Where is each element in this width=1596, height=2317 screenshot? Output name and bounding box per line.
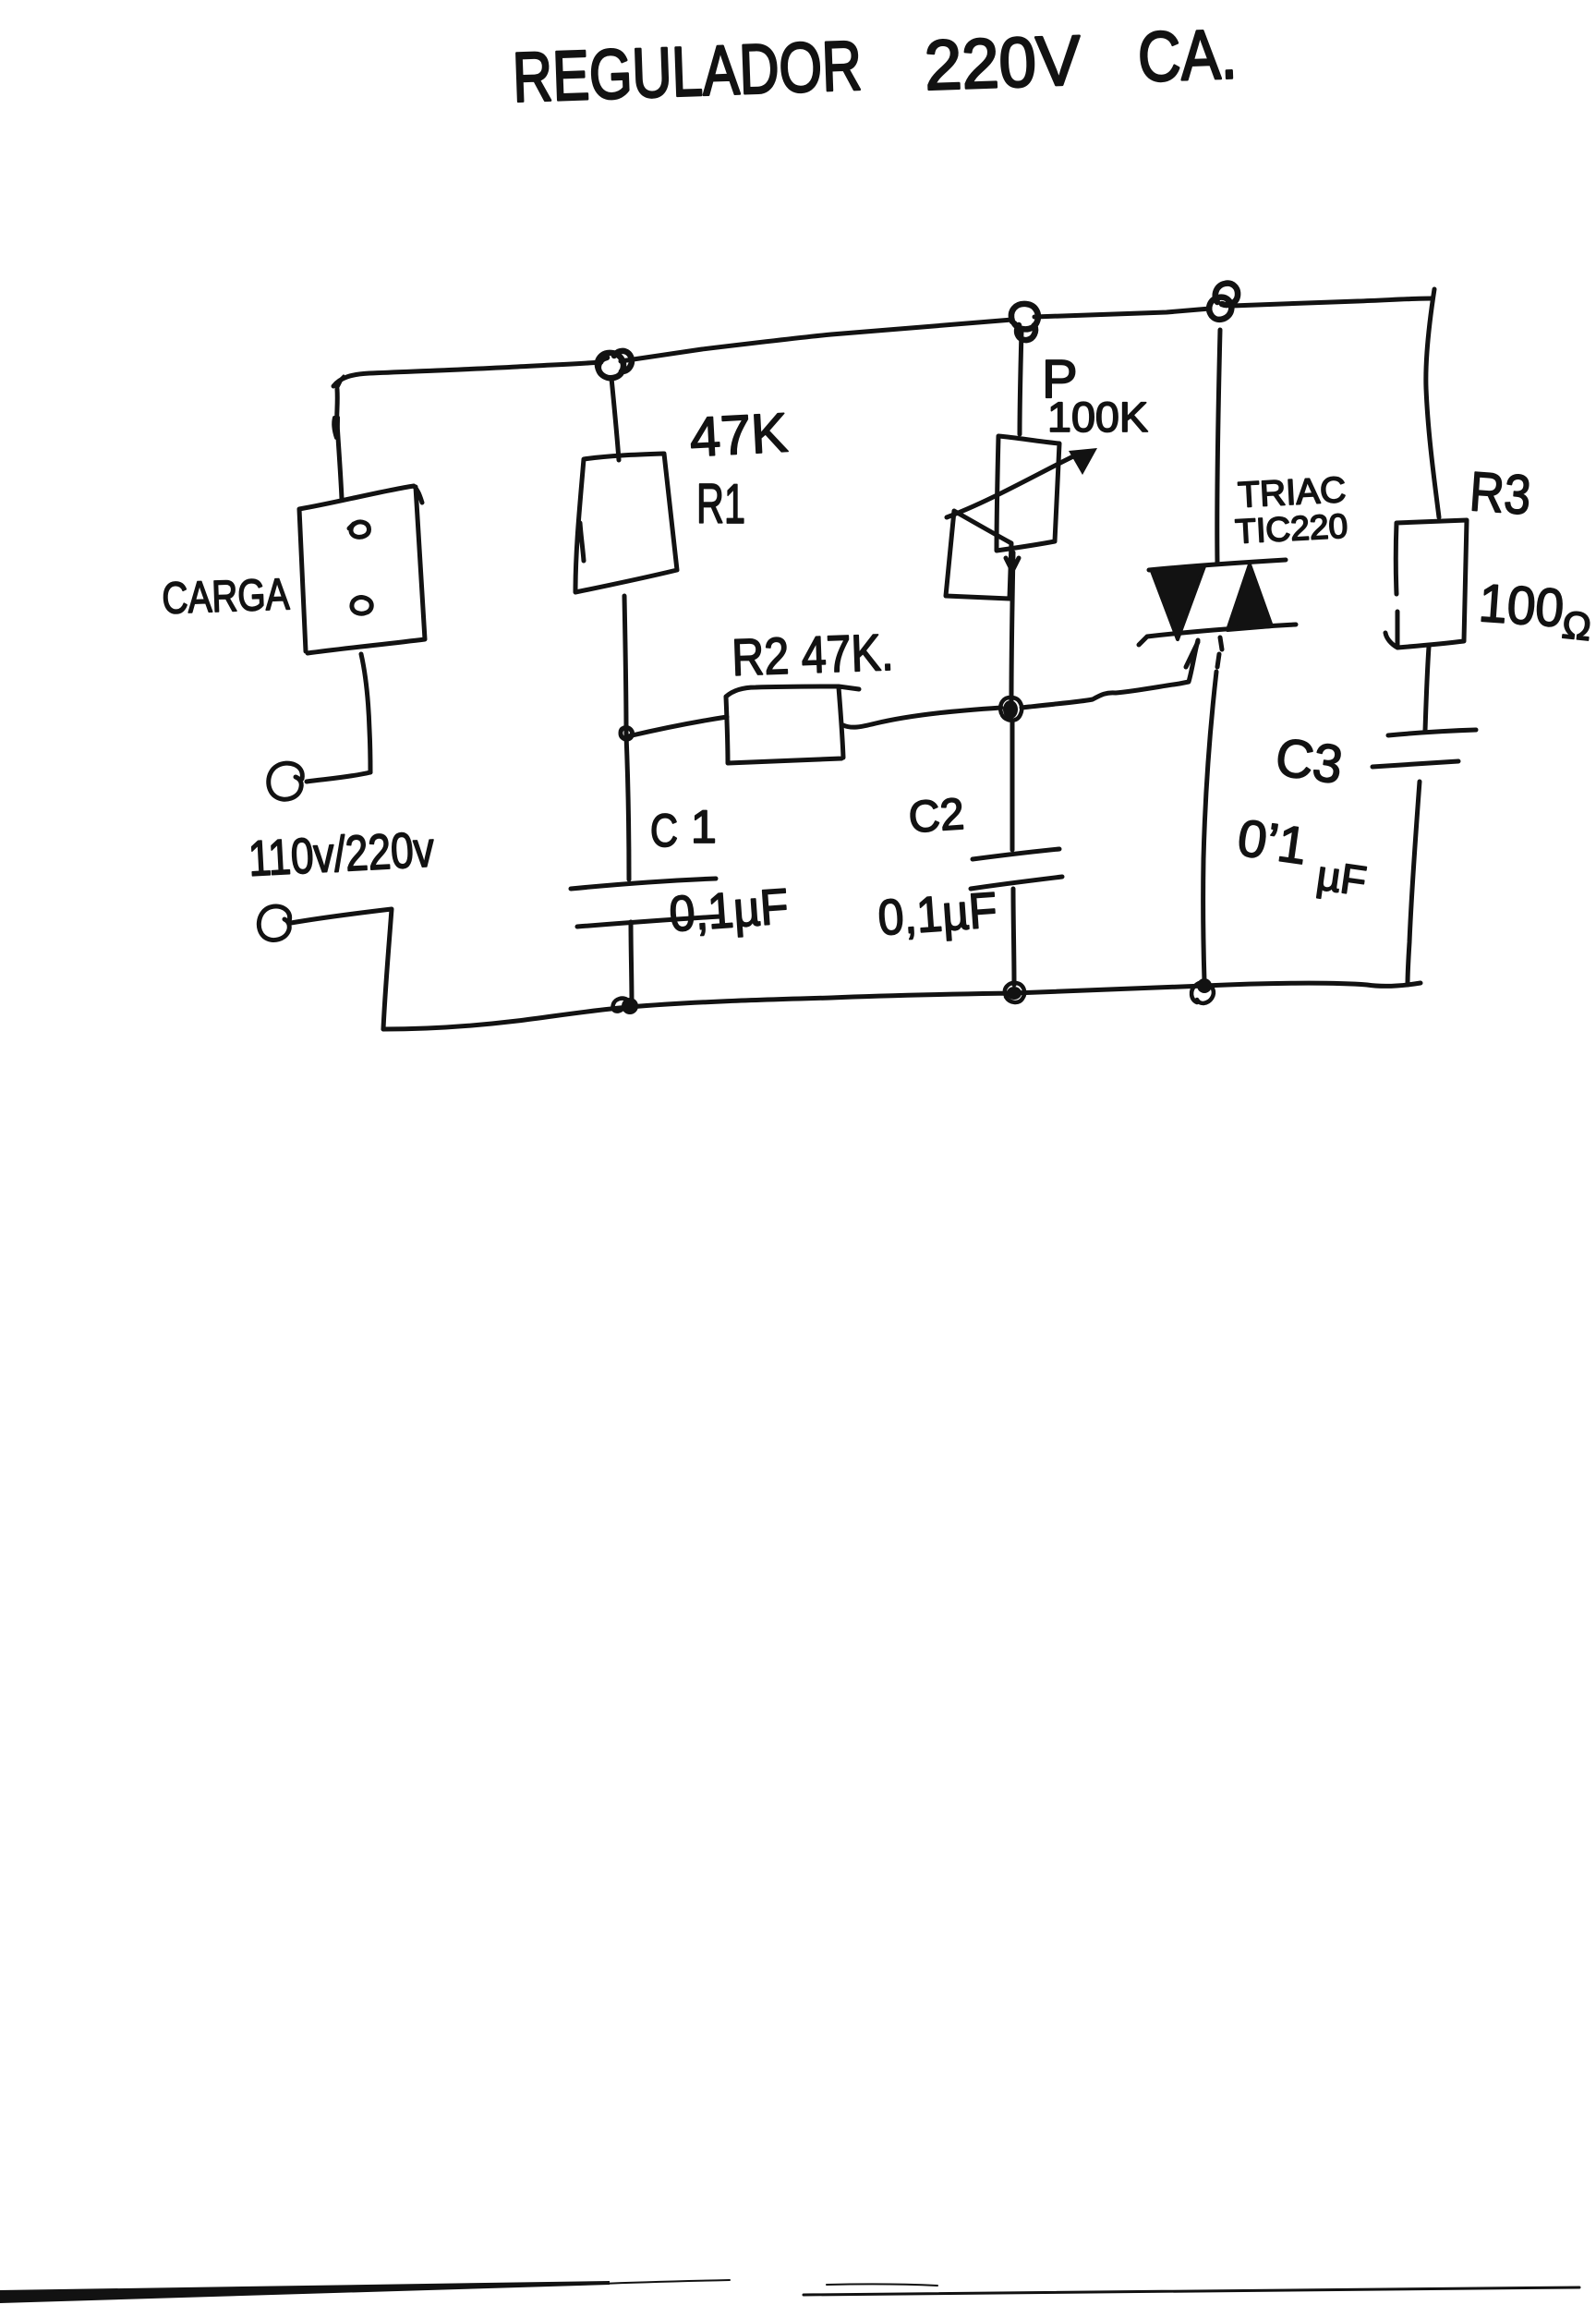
potentiometer P body rect bbox=[997, 436, 1059, 551]
svg-text:100K: 100K bbox=[1047, 394, 1148, 441]
svg-text:0,1µF: 0,1µF bbox=[877, 882, 999, 946]
wire C3 bottom lead to rail bbox=[1408, 782, 1420, 985]
terminal upper circle bbox=[269, 763, 303, 799]
svg-text:R1: R1 bbox=[696, 473, 745, 535]
capacitor C3 plate top bbox=[1388, 730, 1476, 735]
load CARGA box bbox=[299, 486, 425, 653]
triac bottom bar bbox=[1139, 625, 1296, 645]
svg-text:Ω: Ω bbox=[1560, 602, 1593, 649]
node J1 (top rail / R1) bbox=[598, 351, 632, 378]
triac gate diagonal stub bbox=[1186, 642, 1198, 667]
node N1 (R2 / P / C2 / gate) bbox=[1000, 698, 1022, 721]
wire triac gate from node N1 bbox=[1022, 640, 1198, 708]
wire triac MT2 lead from top rail bbox=[1217, 330, 1220, 563]
title REGULADOR 220V CA. bbox=[512, 15, 1239, 117]
CARGA terminal dot lower bbox=[352, 598, 371, 614]
svg-text:110v/220v: 110v/220v bbox=[247, 822, 435, 887]
node J4 (bottom rail / C1) bbox=[612, 998, 638, 1014]
potentiometer P wiper arrow bbox=[947, 455, 1075, 517]
node J3 (top rail / triac) bbox=[1209, 284, 1238, 320]
wire CARGA top lead bbox=[337, 389, 342, 499]
svg-text:100: 100 bbox=[1477, 573, 1566, 638]
svg-text:R2 47K.: R2 47K. bbox=[731, 623, 894, 686]
potentiometer P body parallelogram bbox=[946, 511, 1011, 599]
resistor R3 body bbox=[1385, 520, 1467, 648]
potentiometer P lead top bbox=[1020, 331, 1022, 434]
svg-text:1: 1 bbox=[691, 801, 717, 853]
node J2 (top rail / P) bbox=[1011, 304, 1038, 340]
triac right triangle bbox=[1227, 564, 1272, 630]
wire CARGA bottom lead bbox=[361, 654, 370, 772]
wire R2 left lead bbox=[628, 717, 727, 736]
wire R3 bottom lead bbox=[1425, 647, 1429, 731]
svg-text:C2: C2 bbox=[907, 790, 966, 843]
label C1 bbox=[650, 801, 717, 856]
wire C2 top lead bbox=[1010, 721, 1015, 850]
capacitor C1 plate top bbox=[571, 879, 716, 889]
wire right edge from top rail to R3 bbox=[1426, 289, 1439, 517]
svg-text:220V: 220V bbox=[924, 21, 1082, 105]
wire C1 bottom lead bbox=[631, 922, 632, 1006]
svg-text:TIC220: TIC220 bbox=[1234, 507, 1348, 551]
svg-text:µF: µF bbox=[1314, 851, 1370, 904]
scan smear bottom left bbox=[0, 2281, 610, 2303]
node J6 (bottom rail / triac) bbox=[1191, 978, 1214, 1003]
label 110v/220v bbox=[247, 822, 435, 887]
wire top rail bbox=[333, 298, 1433, 386]
svg-text:CARGA: CARGA bbox=[162, 570, 291, 624]
svg-text:R3: R3 bbox=[1468, 460, 1533, 526]
label C3 value bbox=[1234, 807, 1369, 904]
triac TIC220 top bar bbox=[1149, 560, 1286, 570]
capacitor C1 plate bottom bbox=[577, 916, 720, 927]
terminal lower circle bbox=[259, 906, 289, 940]
capacitor C2 plate bottom bbox=[971, 877, 1062, 889]
scan smear bottom right bbox=[804, 2287, 1579, 2295]
CARGA terminal dot upper bbox=[349, 522, 369, 537]
wire bottom rail bbox=[383, 983, 1421, 1029]
wire R1 bottom lead to C1 bbox=[624, 596, 629, 879]
svg-text:C3: C3 bbox=[1272, 727, 1346, 795]
resistor R1 body bbox=[575, 454, 677, 592]
svg-text:0’1: 0’1 bbox=[1234, 807, 1311, 875]
svg-text:CA.: CA. bbox=[1137, 15, 1239, 97]
triac left triangle bbox=[1152, 566, 1204, 639]
node J5 (bottom rail / C2) bbox=[1005, 983, 1024, 1002]
wire C2 bottom lead bbox=[1013, 889, 1014, 985]
node R1/R2 tap bbox=[621, 728, 632, 740]
label 100 ohm bbox=[1477, 573, 1593, 649]
wire triac MT1 lead bbox=[1203, 637, 1222, 981]
svg-text:C: C bbox=[650, 805, 678, 856]
svg-text:REGULADOR: REGULADOR bbox=[512, 27, 864, 117]
wire R2 right lead to node bbox=[843, 708, 1001, 727]
capacitor C2 plate top bbox=[973, 849, 1059, 859]
resistor R2 body bbox=[726, 686, 859, 763]
capacitor C3 plate bottom bbox=[1372, 761, 1458, 767]
svg-text:0,1µF: 0,1µF bbox=[668, 879, 791, 942]
resistor R1 lead top bbox=[611, 378, 619, 460]
wire lower terminal to bottom rail corner bbox=[291, 909, 392, 1029]
wire to upper terminal bbox=[307, 772, 370, 782]
wire P bottom lead bbox=[1006, 552, 1019, 700]
svg-text:47K: 47K bbox=[688, 402, 789, 468]
